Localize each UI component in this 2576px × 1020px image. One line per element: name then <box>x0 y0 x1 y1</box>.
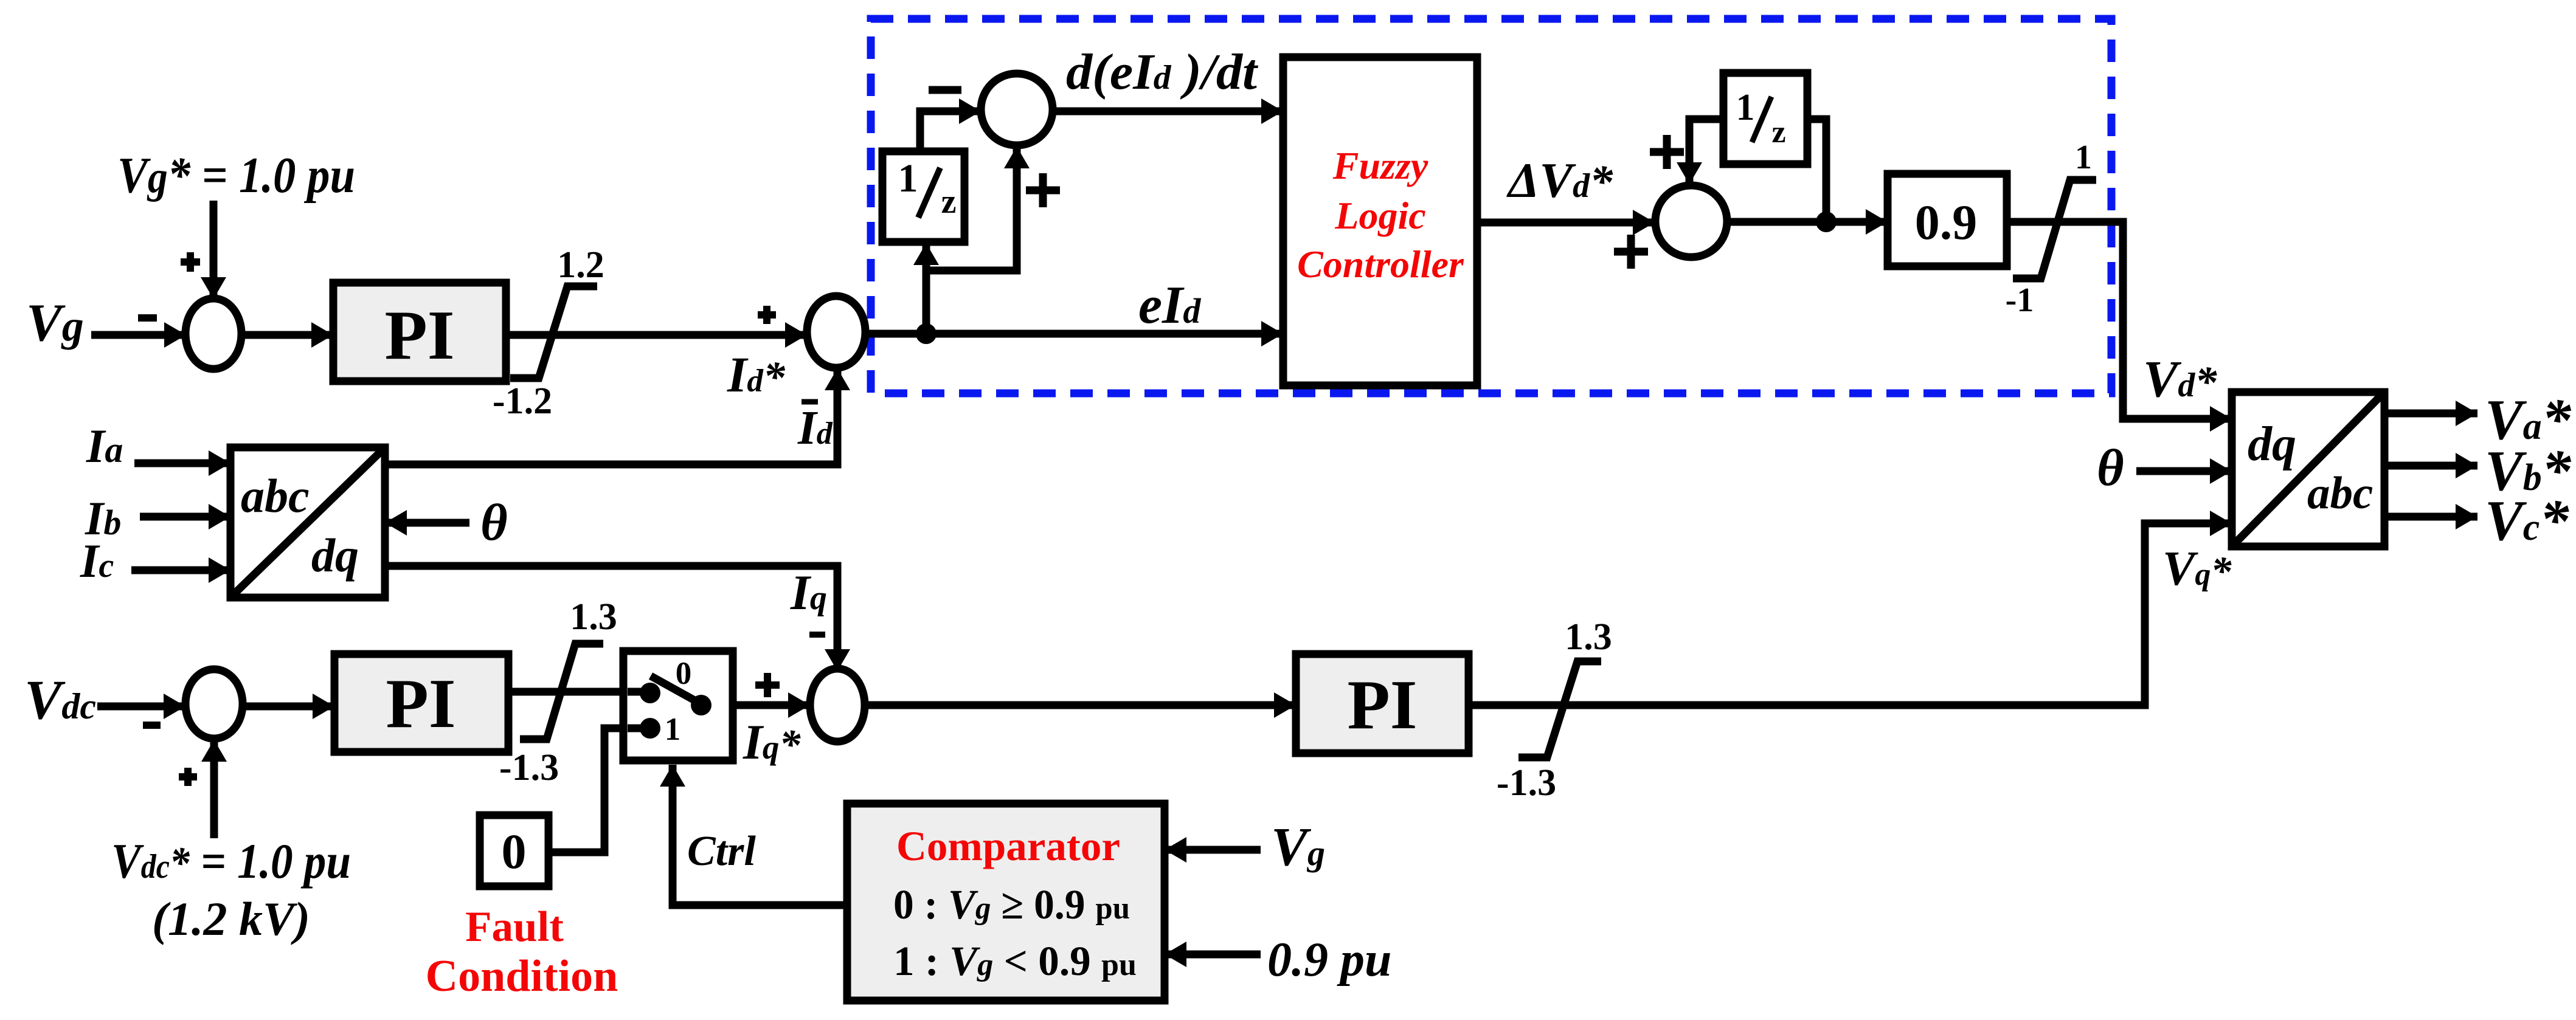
svg-text:PI: PI <box>1348 666 1418 743</box>
svg-text:Vg: Vg <box>26 294 84 353</box>
svg-text:Id*: Id* <box>727 346 786 402</box>
svg-text:abc: abc <box>241 469 310 522</box>
svg-text:PI: PI <box>385 297 455 374</box>
svg-text:PI: PI <box>386 665 456 742</box>
svg-text:0: 0 <box>502 824 527 879</box>
svg-text:d(eId )/dt: d(eId )/dt <box>1066 44 1259 100</box>
svg-text:z: z <box>941 183 957 221</box>
svg-text:1: 1 <box>898 156 918 201</box>
svg-text:1: 1 <box>665 712 681 747</box>
svg-text:Controller: Controller <box>1297 243 1464 286</box>
svg-text:Vg: Vg <box>1271 817 1325 877</box>
svg-text:θ: θ <box>2097 438 2124 497</box>
svg-text:-1.2: -1.2 <box>493 381 552 422</box>
svg-text:z: z <box>1771 115 1785 150</box>
svg-text:ΔVd*: ΔVd* <box>1506 153 1613 208</box>
svg-text:0: 0 <box>676 656 692 691</box>
svg-text:Ctrl: Ctrl <box>687 828 756 875</box>
svg-text:θ: θ <box>480 493 508 551</box>
svg-text:Fault: Fault <box>465 903 564 951</box>
svg-text:0.9: 0.9 <box>1915 195 1978 250</box>
svg-text:1.3: 1.3 <box>1565 616 1612 658</box>
svg-text:Ic: Ic <box>80 534 114 587</box>
svg-text:1.3: 1.3 <box>570 596 617 638</box>
svg-text:Vq*: Vq* <box>2162 542 2232 596</box>
svg-text:-1.3: -1.3 <box>499 747 559 788</box>
svg-text:Vg* = 1.0 pu: Vg* = 1.0 pu <box>117 147 355 204</box>
svg-text:1: 1 <box>1736 87 1755 128</box>
svg-text:Id: Id <box>797 402 833 455</box>
svg-text:1 : Vg < 0.9 pu: 1 : Vg < 0.9 pu <box>893 938 1137 984</box>
svg-text:Vd*: Vd* <box>2143 350 2217 408</box>
svg-text:1: 1 <box>2075 139 2092 176</box>
svg-text:Ia: Ia <box>86 419 123 472</box>
svg-text:Iq: Iq <box>790 565 827 620</box>
svg-text:Vdc: Vdc <box>24 669 96 731</box>
svg-text:abc: abc <box>2307 468 2373 519</box>
svg-text:0 : Vg ≥ 0.9 pu: 0 : Vg ≥ 0.9 pu <box>893 881 1130 928</box>
svg-text:1.2: 1.2 <box>557 244 604 286</box>
svg-text:Iq*: Iq* <box>743 714 801 770</box>
svg-text:0.9 pu: 0.9 pu <box>1267 933 1392 987</box>
svg-text:Vdc* = 1.0 pu: Vdc* = 1.0 pu <box>111 833 351 889</box>
svg-text:eId: eId <box>1138 276 1201 335</box>
svg-text:dq: dq <box>2248 418 2296 471</box>
svg-text:(1.2 kV): (1.2 kV) <box>152 892 310 945</box>
svg-text:dq: dq <box>311 529 359 582</box>
svg-text:Logic: Logic <box>1334 194 1425 237</box>
svg-text:Fuzzy: Fuzzy <box>1332 144 1428 187</box>
svg-text:Comparator: Comparator <box>896 823 1120 869</box>
svg-text:-1: -1 <box>2006 281 2034 319</box>
svg-text:Condition: Condition <box>426 951 618 1001</box>
svg-text:-1.3: -1.3 <box>1497 762 1556 804</box>
